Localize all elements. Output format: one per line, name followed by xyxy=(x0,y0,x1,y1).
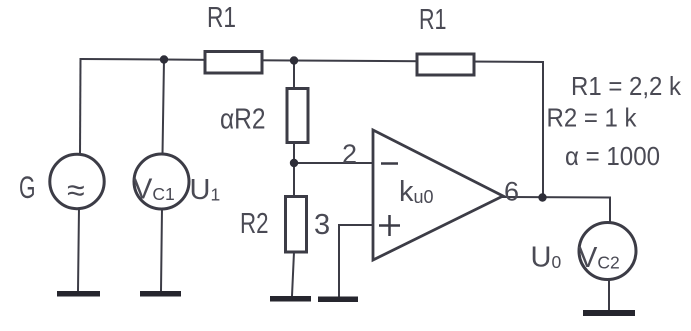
wire VC2 to ground xyxy=(608,279,610,310)
wire R2 to ground xyxy=(292,252,294,296)
svg-text:2: 2 xyxy=(342,139,357,169)
svg-text:3: 3 xyxy=(314,209,330,241)
wire top horizontal bus xyxy=(81,59,544,62)
resistor R2 body xyxy=(286,197,307,253)
ground VC2 xyxy=(583,310,635,316)
wire inverting input xyxy=(294,162,373,164)
resistor aR2 body xyxy=(287,89,308,143)
wire alphaR2 to node 2 junction to R2 xyxy=(293,142,295,197)
generator G circle xyxy=(50,154,104,208)
wire non-inverting input xyxy=(339,225,373,297)
svg-text:R1: R1 xyxy=(419,4,447,36)
op-amp U1 triangle xyxy=(373,130,503,260)
svg-text:6: 6 xyxy=(504,177,519,207)
wire feedback vertical right xyxy=(542,62,544,198)
svg-text:αR2: αR2 xyxy=(220,104,266,136)
svg-text:R1 = 2,2 k: R1 = 2,2 k xyxy=(571,71,682,101)
junction node top alphaR2 xyxy=(290,56,298,64)
junction node top left xyxy=(160,55,168,63)
ground VC1 xyxy=(140,291,181,297)
ground non-inverting xyxy=(318,297,358,303)
wire VC1 top vertical xyxy=(163,60,165,155)
wire left vertical to generator xyxy=(79,59,82,155)
svg-text:≈: ≈ xyxy=(67,172,85,208)
svg-text:R2 = 1 k: R2 = 1 k xyxy=(547,103,638,133)
wire opamp output xyxy=(503,196,610,199)
wire top bus down to alphaR2 xyxy=(293,61,295,89)
resistor R1 left body xyxy=(205,52,262,74)
junction node output xyxy=(538,193,546,201)
junction node 2 xyxy=(290,159,298,167)
wire output down to VC2 xyxy=(609,198,611,225)
wire VC1 to ground xyxy=(161,208,162,291)
resistor R1 right body xyxy=(417,54,474,75)
svg-text:α = 1000: α = 1000 xyxy=(565,141,660,171)
voltmeter VC2 circle xyxy=(579,223,636,280)
op-amp minus mark xyxy=(381,162,398,165)
op-amp plus mark xyxy=(379,215,400,236)
svg-text:R1: R1 xyxy=(207,2,236,34)
ground generator xyxy=(57,291,100,297)
voltmeter VC1 circle xyxy=(134,154,189,209)
svg-text:R2: R2 xyxy=(240,208,269,240)
svg-text:G: G xyxy=(19,169,36,205)
ground R2 xyxy=(270,296,311,302)
wire generator to ground xyxy=(78,208,79,292)
